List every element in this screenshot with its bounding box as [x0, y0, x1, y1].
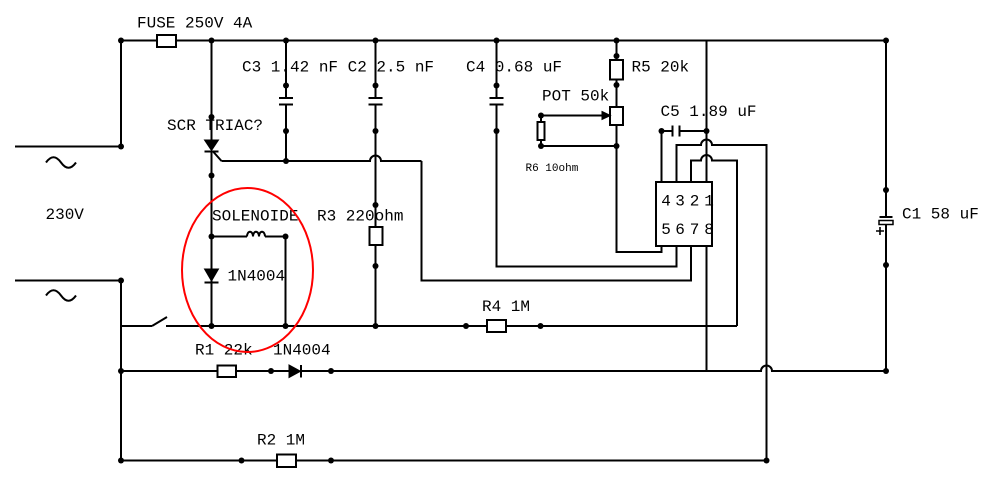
svg-text:230V: 230V: [46, 206, 85, 224]
wire switch row to R4: [166, 325, 487, 327]
svg-text:POT 50k: POT 50k: [542, 88, 609, 106]
node solenoid top right: [283, 234, 289, 240]
POT wiper arrowhead: [602, 112, 611, 120]
capacitor C5 plates: [673, 126, 680, 137]
node C2 lower: [373, 128, 379, 134]
capacitor C1 top plate: [880, 216, 893, 218]
svg-text:R4 1M: R4 1M: [482, 298, 530, 316]
node POT bottom: [614, 143, 620, 149]
capacitor C1 bottom plate: [879, 221, 893, 225]
node top rail R5: [614, 38, 620, 44]
svg-text:R5 20k: R5 20k: [632, 59, 690, 77]
diode D1 cathode bar: [205, 282, 219, 284]
node AC lower: [118, 278, 124, 284]
capacitor C2 bottom lead: [375, 105, 377, 228]
node solenoid bottom right: [283, 323, 289, 329]
diode D1 solenoid triangle: [205, 269, 219, 281]
wire switch row: [121, 325, 152, 327]
node C3 upper: [283, 83, 289, 89]
capacitor C5 right lead: [680, 130, 707, 132]
capacitor C3 bottom lead: [285, 105, 287, 162]
AC source tilde upper: [46, 157, 76, 168]
node R5 upper: [614, 53, 620, 59]
inductor L1 solenoid coil: [247, 232, 265, 237]
svg-text:SCR TRIAC?: SCR TRIAC?: [167, 117, 263, 135]
resistor R1 body: [218, 366, 237, 378]
svg-text:R3 220ohm: R3 220ohm: [317, 208, 403, 226]
node SCR anode: [209, 114, 215, 120]
capacitor C3 top lead: [285, 41, 287, 99]
svg-text:R2 1M: R2 1M: [257, 432, 305, 450]
capacitor C3 plates: [279, 98, 293, 105]
capacitor C1 bottom lead: [885, 225, 887, 372]
resistor R4 body: [487, 320, 506, 332]
diode D2 cathode bar: [300, 365, 302, 378]
node R2 right: [328, 458, 334, 464]
node C5 left: [659, 128, 665, 134]
wire R3 to switch row: [375, 245, 377, 326]
node R3 switch row: [373, 323, 379, 329]
node R3 upper: [373, 202, 379, 208]
svg-text:R1 22k: R1 22k: [195, 342, 253, 360]
svg-text:1N4004: 1N4004: [273, 342, 331, 360]
node R4 right: [538, 323, 544, 329]
node top rail left: [118, 38, 124, 44]
node R2 left: [239, 458, 245, 464]
node solenoid top left: [209, 234, 215, 240]
wire R6 to POT bottom: [541, 145, 617, 147]
resistor R2 body: [277, 455, 296, 468]
node R5 lower: [614, 82, 620, 88]
capacitor C4 plates: [490, 98, 504, 105]
node top rail C4: [494, 38, 500, 44]
node top rail C1: [883, 38, 889, 44]
wire R1 row left: [121, 370, 218, 372]
wire C4 to pin6: [497, 105, 677, 267]
wire R2 row left: [121, 460, 277, 462]
node wiper left: [538, 113, 544, 119]
IC U1 body: [656, 182, 712, 246]
svg-text:C5 1.89 uF: C5 1.89 uF: [661, 103, 757, 121]
svg-text:C3 1.42 nF C2 2.5 nF: C3 1.42 nF C2 2.5 nF: [242, 59, 434, 77]
node left rail R2: [118, 458, 124, 464]
wire POT wiper: [541, 115, 602, 117]
capacitor C1 top lead: [885, 41, 887, 218]
wire R4 to corner: [506, 325, 737, 327]
node R1 row C1: [883, 368, 889, 374]
svg-text:C4 0.68 uF: C4 0.68 uF: [466, 59, 562, 77]
svg-text:FUSE 250V 4A: FUSE 250V 4A: [137, 15, 253, 33]
capacitor C2 plates: [369, 98, 383, 105]
wire wiper to R6: [540, 116, 542, 123]
node C2 upper: [373, 83, 379, 89]
node top rail C3: [283, 38, 289, 44]
node top rail SCR: [209, 38, 215, 44]
node AC upper: [118, 144, 124, 150]
node C3 lower: [283, 128, 289, 134]
wire POT to pin5: [617, 125, 662, 252]
resistor R6 body: [538, 122, 545, 140]
node SCR cathode: [209, 173, 215, 179]
node top rail C2: [373, 38, 379, 44]
wire R2 row right: [296, 460, 767, 462]
node left rail R1: [118, 368, 124, 374]
capacitor C2 top lead: [375, 41, 377, 99]
wire pin7 to gate corner: [422, 161, 692, 281]
resistor R3 body: [370, 227, 383, 245]
SCR Q1 cathode bar: [205, 151, 219, 153]
SCR Q1 triangle: [205, 140, 219, 151]
diode D2 triangle: [289, 365, 301, 378]
wire solenoid right leg: [285, 237, 287, 327]
wire R5 top lead: [616, 41, 618, 61]
wire AC terminal lower: [15, 280, 121, 282]
wire gate row: [222, 156, 422, 162]
wire pin3 loop to bottom rail: [677, 140, 767, 461]
wire top rail: [120, 40, 886, 42]
node R2 row end: [764, 458, 770, 464]
wire left rail upper: [120, 41, 122, 147]
wire pin1 to top rail: [706, 41, 708, 183]
wire R5 to POT: [616, 80, 618, 108]
svg-text:1N4004: 1N4004: [228, 268, 286, 286]
svg-text:C1 58 uF: C1 58 uF: [902, 206, 979, 224]
wire R1 to diode: [236, 370, 289, 372]
annotation ellipse solenoid highlight: [182, 188, 313, 352]
wire solenoid top left: [212, 236, 248, 238]
wire solenoid top right: [265, 236, 286, 238]
wire R6 bottom lead: [540, 140, 542, 146]
AC source tilde lower: [46, 290, 76, 301]
node R3 lower: [373, 263, 379, 269]
node R6 bottom: [538, 143, 544, 149]
SCR Q1 gate lead: [214, 152, 222, 161]
wire pin8 down: [706, 246, 708, 371]
resistor R5 body: [610, 60, 623, 80]
wire left rail lower: [120, 281, 122, 461]
capacitor C4 top lead: [496, 41, 498, 99]
node D2 right: [328, 368, 334, 374]
svg-text:R6 10ohm: R6 10ohm: [526, 163, 579, 175]
wire pin2 loop to R4 corner: [691, 155, 737, 326]
node C3 gate junction: [283, 158, 289, 164]
node C5 right: [704, 128, 710, 134]
wire pin4 to C5: [661, 131, 663, 182]
node C1 lower: [883, 262, 889, 268]
svg-text:SOLENOIDE: SOLENOIDE: [212, 208, 298, 226]
wire AC terminal upper: [15, 146, 121, 148]
capacitor C5 left lead: [662, 130, 673, 132]
node C4 lower: [494, 128, 500, 134]
node R4 left: [463, 323, 469, 329]
wire SCR anode: [211, 41, 213, 141]
fuse F1 body: [157, 35, 176, 47]
node C1 upper: [883, 187, 889, 193]
node solenoid bottom left: [209, 323, 215, 329]
wire SCR cathode down: [211, 152, 213, 327]
potentiometer POT body: [610, 107, 623, 125]
wire diode to C1 bottom with hop: [301, 366, 886, 372]
node C4 upper: [494, 83, 500, 89]
node R1 right: [268, 368, 274, 374]
switch SW1 blade: [152, 317, 167, 326]
capacitor C1 plus sign: [876, 227, 884, 235]
